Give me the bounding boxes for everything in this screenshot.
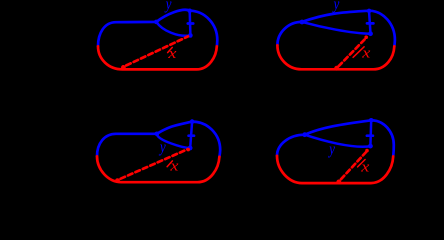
panel 4 (bottom-right): [277, 118, 394, 184]
oval blue top: [97, 122, 220, 157]
chord: [369, 120, 372, 146]
plus tick on chord: [189, 134, 194, 137]
dashed x-curve: [126, 36, 188, 65]
tick crossing dashed line: [358, 160, 366, 167]
bottom vertex dot B1: [188, 33, 193, 38]
dashed x-curve: [339, 38, 367, 67]
red endpoint dot: [186, 148, 190, 152]
lower lens curve: [156, 22, 190, 36]
panel 1 (top-left): [98, 9, 217, 70]
tick crossing dashed line: [167, 161, 172, 167]
label x (panel 1): [167, 45, 177, 62]
svg-text:y: y: [164, 0, 172, 13]
lower lens curve: [302, 22, 371, 34]
dashed x-curve: [341, 151, 367, 179]
label x (panel 3): [169, 157, 179, 174]
red base dot: [334, 66, 339, 71]
svg-text:x: x: [360, 158, 370, 175]
oval blue top: [277, 120, 394, 156]
bottom vertex dot B2: [368, 31, 373, 36]
label y (panel 4): [327, 141, 335, 158]
dashed x-curve: [121, 149, 188, 179]
oval red bottom: [277, 156, 393, 183]
svg-text:y: y: [332, 0, 340, 14]
top dot T1: [187, 9, 192, 14]
red base dot: [336, 180, 341, 185]
top dot T2: [367, 9, 372, 14]
label y (panel 1): [164, 0, 172, 13]
top dot T3: [190, 119, 195, 124]
vertex dot V4: [302, 132, 307, 137]
vertex dot V3: [155, 132, 160, 137]
oval red bottom: [97, 156, 219, 182]
panel 3 (bottom-left): [97, 119, 220, 183]
oval blue top: left arc to vertex, long upper lens curve, top-right arc: [277, 11, 395, 47]
red endpoint dot: [365, 149, 369, 153]
vertex dot V2: [300, 20, 305, 25]
svg-text:y: y: [327, 141, 335, 158]
red base dot: [121, 65, 126, 70]
label x (panel 2): [361, 44, 371, 61]
oval blue top: left arc, top edge, upper lens curve, top-right arc: [98, 10, 217, 46]
svg-text:y: y: [158, 139, 166, 156]
chord: [369, 11, 371, 34]
bottom vertex dot B3: [188, 146, 193, 151]
top dot T4: [369, 118, 374, 123]
label y (panel 2): [332, 0, 340, 14]
chord: [190, 122, 192, 148]
vertex dot V1: [154, 20, 159, 25]
lower lens curve: [157, 134, 190, 148]
lower lens curve: [305, 135, 371, 147]
oval red bottom: [277, 45, 394, 69]
svg-text:x: x: [361, 44, 371, 61]
plus tick on chord: [367, 22, 373, 25]
oval red bottom: [98, 46, 217, 69]
label x (panel 4): [360, 158, 370, 175]
svg-text:x: x: [169, 157, 179, 174]
panel 2 (top-right): [277, 9, 395, 71]
plus tick on chord: [367, 134, 373, 137]
plus tick on chord: [188, 22, 193, 25]
red base dot: [115, 178, 120, 183]
tick crossing dashed line: [353, 47, 364, 58]
red endpoint dot: [364, 35, 368, 39]
label y (panel 3): [158, 139, 166, 156]
bottom vertex dot B4: [368, 144, 373, 149]
svg-text:x: x: [167, 45, 177, 62]
tick crossing dashed line: [168, 47, 173, 52]
chord: [188, 11, 191, 35]
